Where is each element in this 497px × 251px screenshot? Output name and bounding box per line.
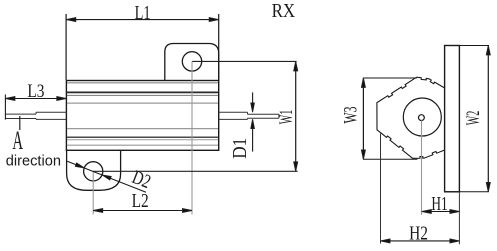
- svg-text:W2: W2: [463, 111, 484, 126]
- svg-text:D1: D1: [230, 138, 251, 159]
- svg-text:RX: RX: [272, 0, 296, 22]
- svg-text:direction: direction: [6, 153, 61, 169]
- svg-text:H1: H1: [431, 193, 447, 215]
- svg-text:L3: L3: [27, 81, 44, 102]
- svg-text:W1: W1: [276, 110, 297, 125]
- svg-text:L1: L1: [135, 2, 151, 24]
- svg-text:L2: L2: [132, 191, 149, 212]
- svg-text:H2: H2: [409, 223, 428, 245]
- svg-text:A: A: [12, 126, 23, 155]
- svg-text:W3: W3: [341, 107, 362, 124]
